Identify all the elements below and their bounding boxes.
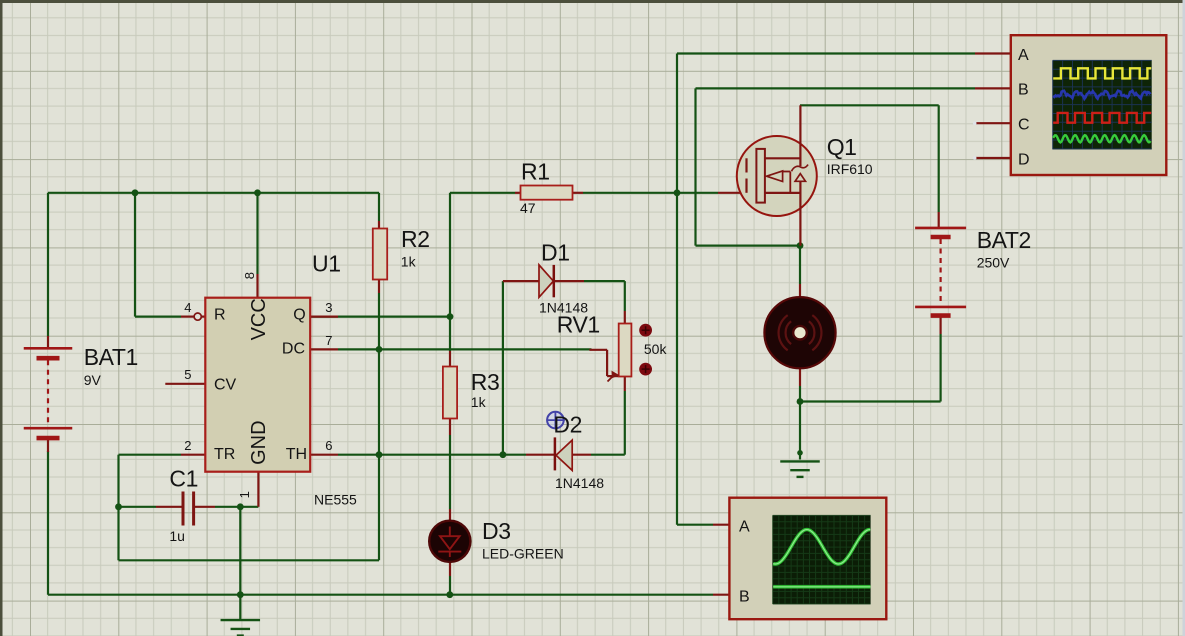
svg-text:R: R xyxy=(214,307,226,324)
svg-text:LED-GREEN: LED-GREEN xyxy=(482,546,564,562)
svg-text:50k: 50k xyxy=(644,341,668,357)
svg-text:R2: R2 xyxy=(401,226,430,252)
svg-text:IRF610: IRF610 xyxy=(827,161,873,177)
svg-text:C: C xyxy=(1018,117,1030,134)
svg-text:DC: DC xyxy=(282,341,305,358)
svg-text:8: 8 xyxy=(242,272,257,279)
svg-text:BAT2: BAT2 xyxy=(977,227,1031,253)
svg-text:5: 5 xyxy=(184,367,191,382)
svg-text:2: 2 xyxy=(184,438,191,453)
svg-text:BAT1: BAT1 xyxy=(84,344,138,370)
svg-text:D: D xyxy=(1018,151,1030,168)
svg-text:D1: D1 xyxy=(541,240,570,266)
svg-text:1N4148: 1N4148 xyxy=(555,475,604,491)
svg-text:TR: TR xyxy=(214,446,235,463)
svg-text:1u: 1u xyxy=(169,528,185,544)
svg-text:250V: 250V xyxy=(977,255,1010,271)
svg-text:6: 6 xyxy=(325,438,332,453)
svg-text:CV: CV xyxy=(214,376,237,393)
svg-text:1: 1 xyxy=(237,491,252,498)
svg-text:4: 4 xyxy=(184,300,191,315)
svg-text:1k: 1k xyxy=(471,394,487,410)
svg-text:RV1: RV1 xyxy=(557,312,600,338)
svg-text:NE555: NE555 xyxy=(314,492,357,508)
svg-text:A: A xyxy=(1018,47,1029,64)
svg-text:47: 47 xyxy=(520,200,536,216)
svg-text:9V: 9V xyxy=(84,372,102,388)
svg-text:U1: U1 xyxy=(312,251,341,277)
svg-text:Q: Q xyxy=(293,307,305,324)
svg-text:B: B xyxy=(1018,82,1029,99)
svg-text:TH: TH xyxy=(286,446,307,463)
svg-text:VCC: VCC xyxy=(248,298,270,340)
svg-text:B: B xyxy=(739,589,750,606)
svg-text:Q1: Q1 xyxy=(827,134,857,160)
svg-text:GND: GND xyxy=(248,420,270,464)
svg-text:A: A xyxy=(739,519,750,536)
svg-text:C1: C1 xyxy=(169,466,198,492)
svg-text:R3: R3 xyxy=(471,369,500,395)
svg-text:D2: D2 xyxy=(553,412,582,438)
svg-text:1k: 1k xyxy=(401,254,417,270)
svg-text:3: 3 xyxy=(325,300,332,315)
svg-text:7: 7 xyxy=(325,333,332,348)
svg-text:R1: R1 xyxy=(521,159,550,185)
svg-text:D3: D3 xyxy=(482,518,511,544)
